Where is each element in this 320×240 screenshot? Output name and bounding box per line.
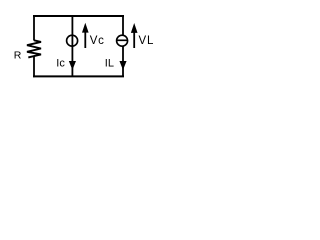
wire: left rail lower <box>33 56 35 77</box>
current source circle (middle) <box>67 35 78 46</box>
source circle (right) <box>117 35 128 46</box>
arrowhead: Ic current direction (down) <box>70 62 76 69</box>
voltage arrow VL shaft (up) <box>133 31 135 49</box>
voltage arrow Vc shaft (up) <box>84 31 86 49</box>
arrowhead: IL current direction (down) <box>120 62 126 69</box>
wire: bottom rail <box>33 75 124 77</box>
source bar (right circle horizontal line) <box>116 39 128 41</box>
voltage arrow VL head <box>132 24 137 32</box>
svg-text:R: R <box>14 50 22 62</box>
wire: right rail upper <box>122 15 124 36</box>
wire: left rail upper <box>33 15 35 41</box>
wire: right rail lower <box>122 46 124 77</box>
resistor R <box>27 40 41 57</box>
svg-text:VL: VL <box>139 35 155 47</box>
svg-text:IL: IL <box>105 58 114 70</box>
wire: middle branch <box>71 15 73 77</box>
svg-text:Ic: Ic <box>56 58 65 70</box>
wire: top rail <box>33 15 124 17</box>
voltage arrow Vc head <box>83 24 88 32</box>
svg-text:Vc: Vc <box>90 35 105 47</box>
